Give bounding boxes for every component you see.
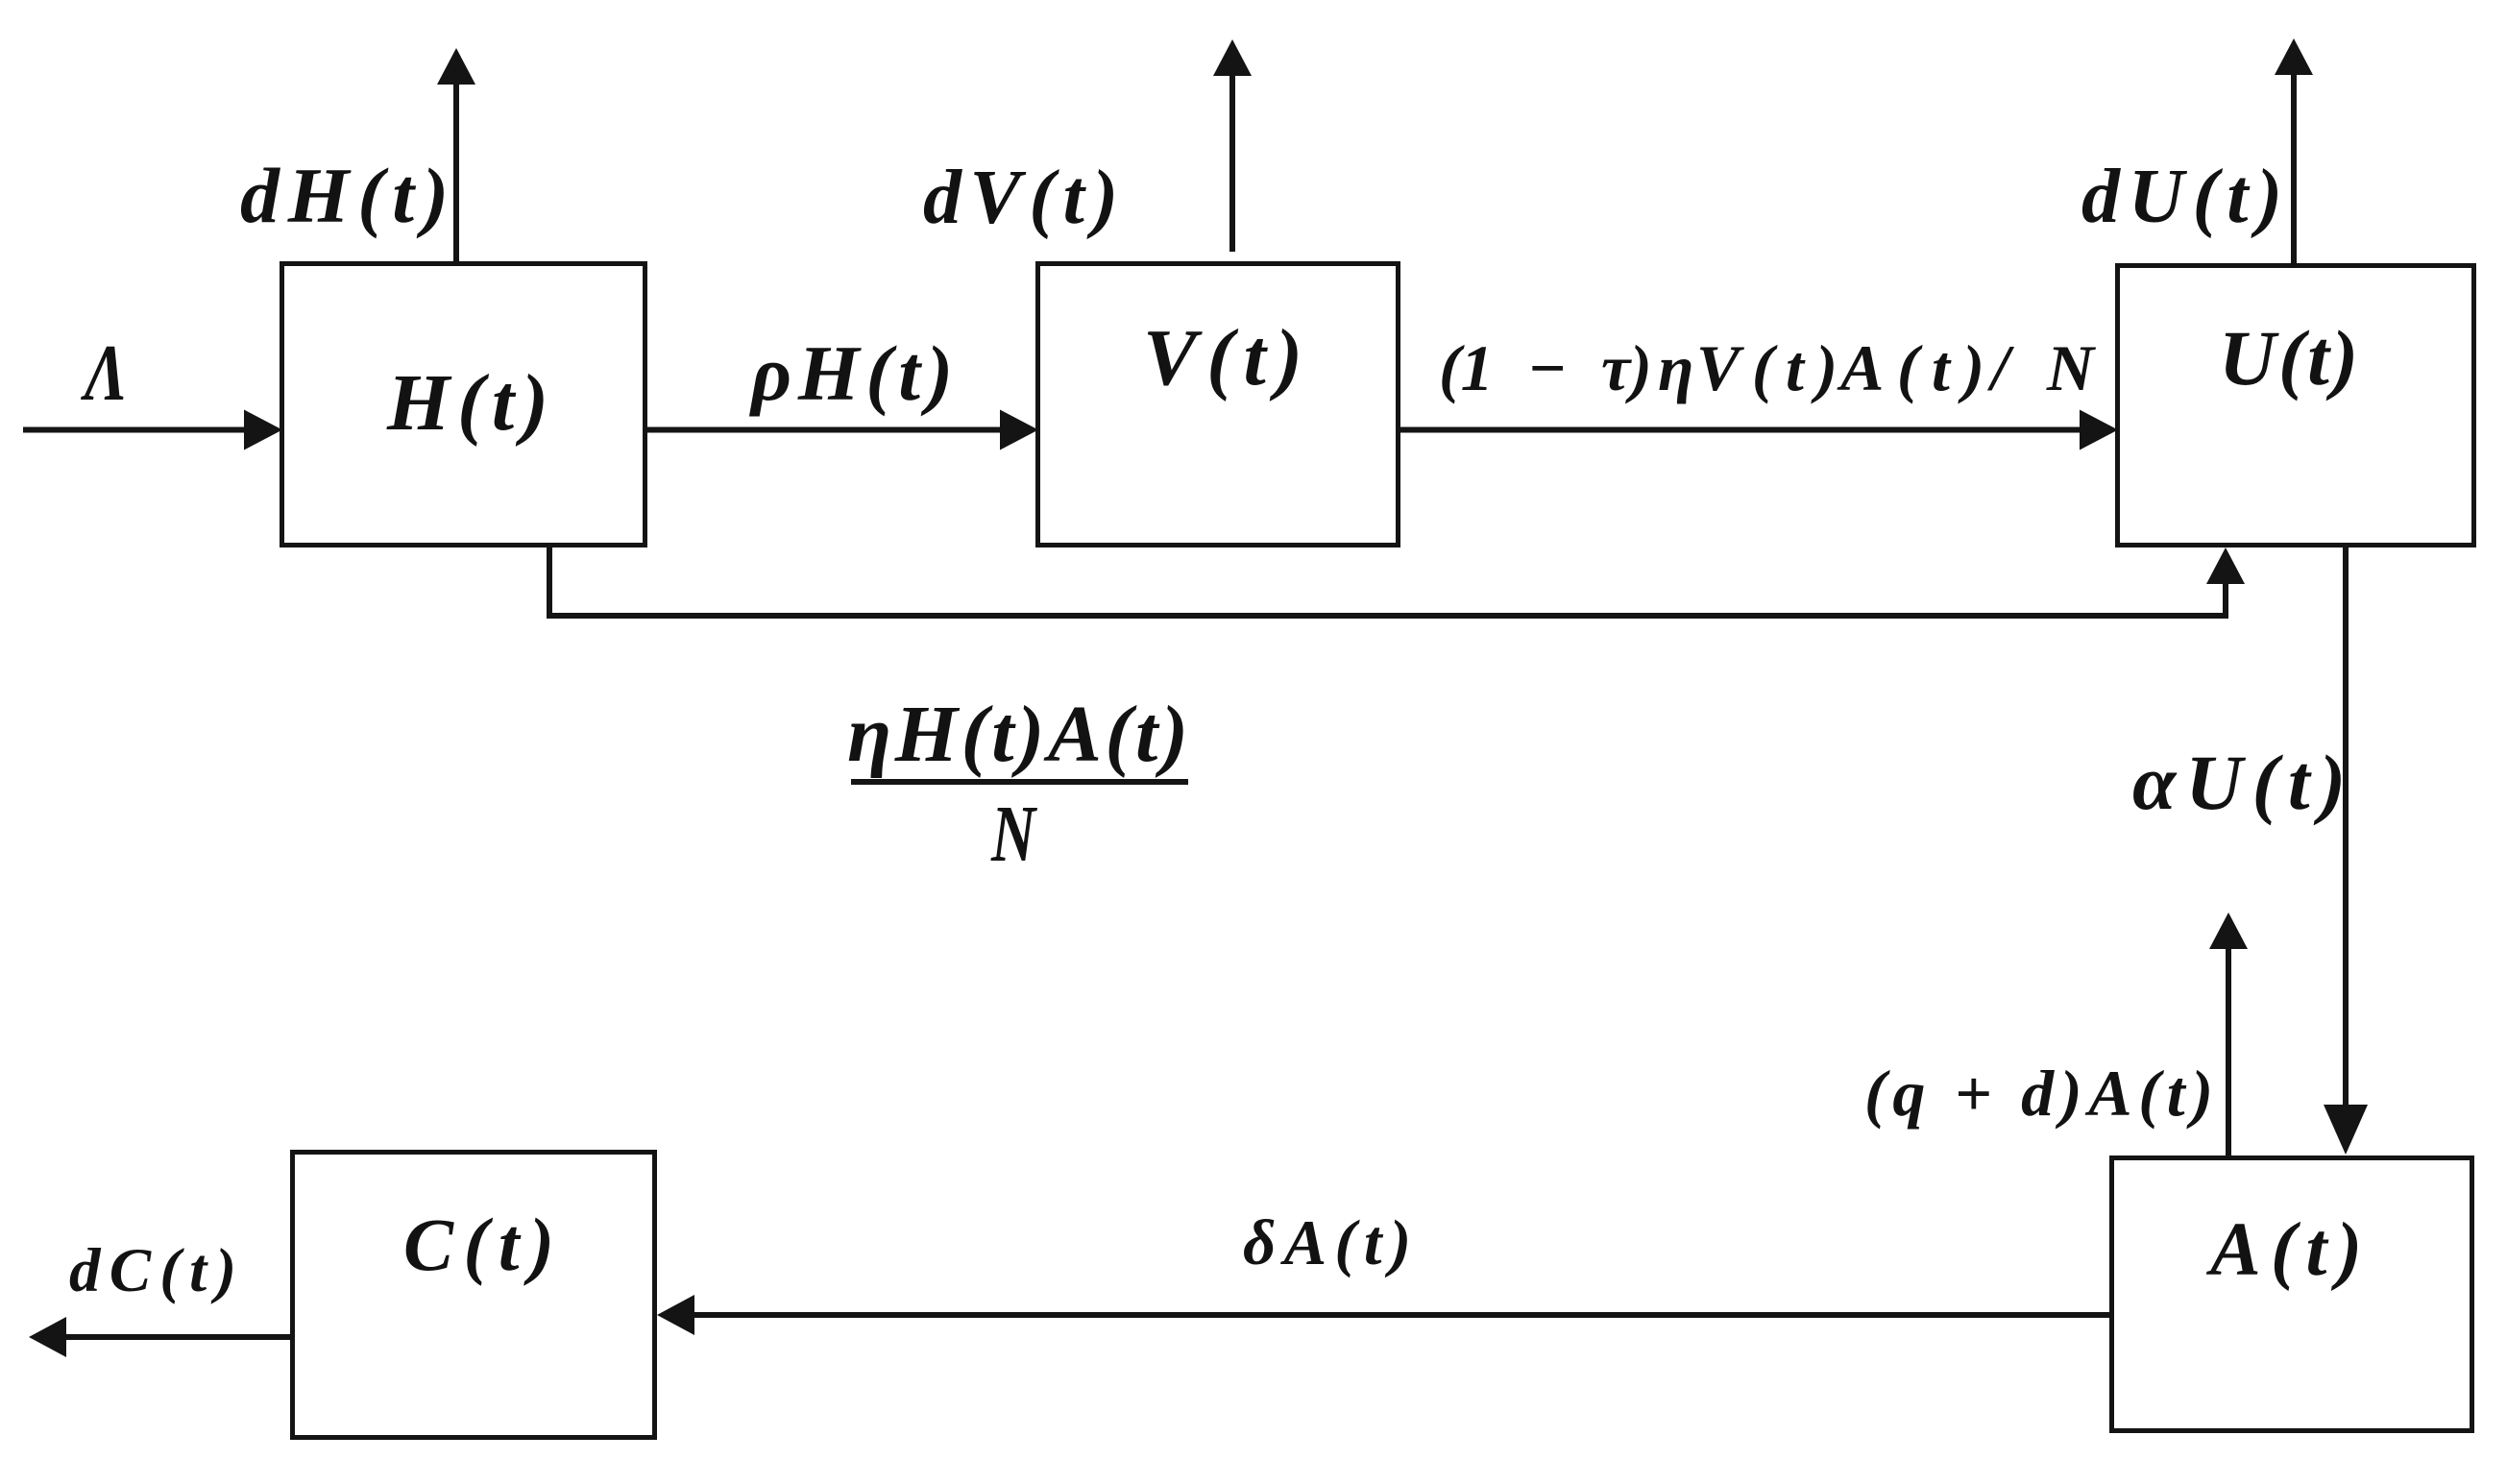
- svg-text:V(t): V(t): [1143, 313, 1302, 402]
- svg-text:U(t): U(t): [2219, 314, 2358, 401]
- svg-text:ηH(t)A(t): ηH(t)A(t): [847, 690, 1188, 779]
- svg-text:Λ: Λ: [81, 328, 128, 418]
- svg-text:N: N: [990, 791, 1038, 879]
- svg-text:H(t): H(t): [386, 358, 548, 448]
- svg-text:C(t): C(t): [403, 1203, 554, 1286]
- svg-text:(1−τ)ηV(t)A(t)/N: (1−τ)ηV(t)A(t)/N: [1439, 331, 2097, 404]
- svg-text:A(t): A(t): [2205, 1208, 2362, 1292]
